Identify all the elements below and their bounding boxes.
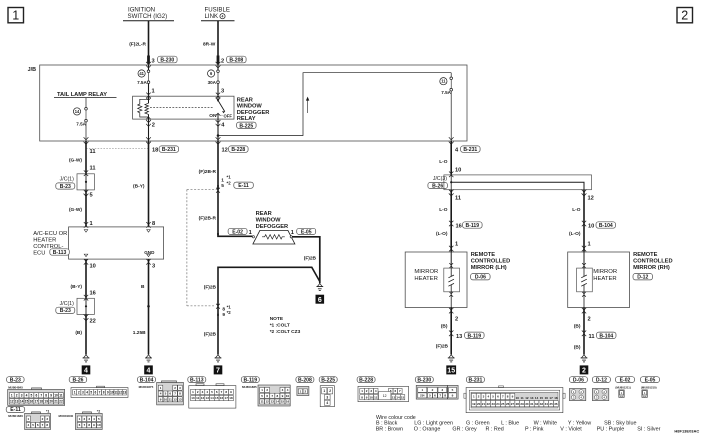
wire label (F)2L-R [129,42,146,48]
fuse 41 7.5A [137,65,155,96]
svg-text:(MU801210): (MU801210) [641,385,657,389]
svg-text:9: 9 [222,312,225,318]
svg-text:H8F13E03AC: H8F13E03AC [674,428,699,433]
connector B-231 pin 18 [146,137,179,153]
svg-text:12: 12 [265,400,269,404]
svg-text:10: 10 [286,394,290,398]
svg-text:REMOTE: REMOTE [633,252,658,258]
svg-text:30A: 30A [208,80,217,85]
svg-text:(B-Y): (B-Y) [71,284,83,290]
wire to defogger pin 1 E-02 [218,228,254,238]
svg-text:9: 9 [107,391,109,395]
svg-text:L-O: L-O [572,207,581,213]
connector view B-104 [138,377,184,405]
svg-text:(B): (B) [574,324,581,330]
svg-text:B-225: B-225 [239,123,253,129]
svg-text:18: 18 [152,148,158,154]
svg-text:11: 11 [455,196,461,202]
connector B-231 pin 4 [449,137,480,153]
svg-text:1: 1 [152,89,155,95]
svg-text:18: 18 [554,396,558,400]
connector view D-06 [569,377,587,401]
svg-text:(F)2B: (F)2B [436,344,449,350]
svg-text:(B): (B) [441,324,448,330]
svg-text:B-23: B-23 [60,184,71,190]
wire J/B internal loop to fuse 11 [217,73,452,137]
svg-text:13: 13 [271,400,275,404]
svg-text:3: 3 [152,58,155,64]
svg-text:11: 11 [196,396,200,400]
svg-text:P : Pink: P : Pink [525,426,544,432]
connector B-230 pin 3 [146,56,177,69]
connector B-208 pin 2 [216,56,247,69]
svg-text:13: 13 [530,396,534,400]
connector view B-23 [7,377,65,406]
svg-text:14: 14 [75,109,80,114]
svg-text:11: 11 [90,166,96,172]
svg-text:B-104: B-104 [599,333,613,339]
svg-text:3: 3 [21,394,23,398]
svg-text:2: 2 [455,317,458,323]
svg-text:11: 11 [441,79,446,84]
svg-text:21: 21 [482,402,486,406]
svg-text:MIRROR: MIRROR [414,269,438,275]
junction connector J/C(1) B-23 upper [56,170,95,196]
svg-text:31: 31 [530,402,534,406]
svg-text:11: 11 [59,394,63,398]
wire B mirror LH to B-119 pin13 [436,308,484,355]
connector view B-230 [415,377,458,399]
svg-text:8: 8 [152,221,155,227]
svg-text:B-104: B-104 [599,223,613,229]
svg-text:10: 10 [370,395,374,399]
svg-text:MU801885: MU801885 [242,385,257,389]
svg-text:27: 27 [511,402,515,406]
wire colour code legend [376,415,661,432]
svg-text:B-231: B-231 [468,377,482,383]
relay pin 4 [216,119,226,141]
svg-text:B-26: B-26 [432,183,443,189]
svg-text:6: 6 [318,297,322,304]
ground 4 marker (B-104) [144,365,153,374]
svg-text:8: 8 [45,394,47,398]
svg-text:D-12: D-12 [637,275,648,281]
svg-text:15: 15 [401,395,405,399]
svg-text:B-119: B-119 [468,333,482,339]
svg-text:17: 17 [549,396,553,400]
svg-text:2: 2 [16,394,18,398]
svg-text:14: 14 [20,400,24,404]
callout REMOTE CONTROLLED MIRROR (LH) D-06 [471,252,511,281]
svg-text:13: 13 [206,396,210,400]
sheet marker 1 [8,8,24,23]
svg-text:35: 35 [549,402,553,406]
ECU A/C-ECU OR HEATER CONTROL-ECU B-113 [33,227,163,259]
connector view D-12 [592,377,610,401]
svg-text:4: 4 [222,14,224,18]
svg-text:28: 28 [516,402,520,406]
svg-text:WINDOW: WINDOW [237,104,263,110]
svg-text:8: 8 [103,391,105,395]
svg-text:HEATER: HEATER [33,238,56,244]
svg-text:(F)2L-R: (F)2L-R [129,42,146,48]
ground 4 marker (B-26) [82,365,91,374]
connector view B-26 [69,377,128,398]
connector view B-225 [319,377,337,407]
svg-text:B-225: B-225 [321,377,335,383]
connector view B-208 [296,377,314,396]
svg-text:MIRROR (RH): MIRROR (RH) [633,265,670,271]
defogger pin 1 E-05 [290,228,316,238]
wire G-W pin11 to J/C(1) [69,141,96,174]
relay pin 2 [146,119,155,141]
svg-text:1: 1 [221,177,224,183]
svg-text:1: 1 [11,394,13,398]
svg-text:REAR: REAR [237,97,253,103]
svg-text:15: 15 [215,396,219,400]
svg-text:CONTROLLED: CONTROLLED [633,259,673,265]
svg-text:(F)2B: (F)2B [204,285,217,291]
svg-text:2: 2 [681,9,688,23]
svg-text:14: 14 [535,396,539,400]
svg-text:L-O: L-O [439,159,448,165]
svg-text:13: 13 [15,400,19,404]
svg-text:MIRROR (LH): MIRROR (LH) [471,265,507,271]
svg-text:3: 3 [326,395,328,399]
connector view E-05 [641,377,660,398]
svg-text:36: 36 [554,402,558,406]
svg-text:13: 13 [392,395,396,399]
svg-text:(MU801211): (MU801211) [615,385,630,389]
svg-text:14: 14 [210,396,214,400]
svg-text:13: 13 [456,334,462,340]
ground 7 marker [214,365,223,374]
svg-text:1: 1 [588,242,591,248]
svg-text:17: 17 [35,400,39,404]
svg-text:11: 11 [374,395,378,399]
svg-text:B-104: B-104 [140,377,154,383]
svg-text:11: 11 [90,149,96,155]
svg-text:22: 22 [487,402,491,406]
svg-text:7.5A: 7.5A [76,121,86,126]
junction connector J/C(1) B-23 lower [56,295,95,321]
svg-text:B-231: B-231 [463,147,477,153]
svg-text:(L-O): (L-O) [569,231,581,237]
svg-text:L-O: L-O [439,207,448,213]
svg-text:234: 234 [420,393,425,397]
svg-text:12: 12 [383,394,387,398]
inline connector pins 8/9 (variant) [216,304,231,318]
svg-text:LINK: LINK [205,13,219,20]
relay coil with parallel resistor [138,93,151,120]
connector view B-119 [241,377,290,406]
wire B-Y pin18 to ECU pin8 [133,141,155,228]
svg-text:*1: *1 [227,304,232,309]
svg-text:1: 1 [291,230,294,236]
svg-text:16: 16 [456,224,462,230]
svg-text:B-119: B-119 [244,377,258,383]
svg-text:12: 12 [222,148,228,154]
drawing number [674,428,699,433]
svg-text:16: 16 [220,396,224,400]
svg-text:15: 15 [447,368,455,375]
svg-text:22: 22 [59,400,63,404]
svg-text:(F)2B-R: (F)2B-R [199,216,217,222]
svg-text:7: 7 [216,368,220,375]
variant dashed box [187,190,218,306]
svg-text:18: 18 [229,396,233,400]
svg-text:15: 15 [540,396,544,400]
svg-text:1: 1 [455,242,458,248]
svg-text:MU801840: MU801840 [59,414,74,418]
svg-text:4: 4 [86,391,88,395]
svg-text:*1: *1 [46,410,49,414]
svg-text:B-228: B-228 [359,377,373,383]
svg-text:6: 6 [35,394,37,398]
svg-text:(G-W): (G-W) [69,157,82,163]
svg-text:L : Blue: L : Blue [501,421,519,427]
note text [270,316,301,335]
svg-text:1.25B: 1.25B [133,330,146,336]
relay contact switch ON/OFF [150,93,232,120]
connector view B-228 [357,377,408,402]
svg-text:1: 1 [249,230,252,236]
svg-text:34: 34 [545,402,549,406]
wire B ECU pin3 to ground 4 (B-104) [133,259,155,355]
svg-text:7: 7 [99,391,101,395]
svg-text:B-113: B-113 [190,377,204,383]
svg-text:21: 21 [54,400,58,404]
svg-text:14: 14 [396,395,400,399]
svg-text:MIRROR: MIRROR [593,269,617,275]
heater element REAR WINDOW DEFOGGER [253,211,295,244]
wire label 8R-W [203,42,216,48]
svg-text:13: 13 [178,397,182,401]
wire B mirror RH to B-104 pin11 [574,308,616,355]
wire (F)2B to ground 7 [204,314,218,355]
svg-text:29: 29 [520,402,524,406]
svg-text:D-12: D-12 [596,377,607,383]
svg-text:10: 10 [455,168,461,174]
svg-text:16: 16 [90,291,96,297]
svg-text:10: 10 [97,423,101,427]
svg-text:7: 7 [40,394,42,398]
svg-text:B-23: B-23 [10,377,21,383]
svg-text:(F)2B-R: (F)2B-R [199,169,217,175]
svg-text:B-26: B-26 [72,377,83,383]
svg-text:PU : Purple: PU : Purple [597,426,625,432]
svg-text:*2 :COLT CZ3: *2 :COLT CZ3 [270,329,301,335]
junction connector J/C(3) B-26 [428,172,592,197]
svg-text:HEATER: HEATER [414,276,437,282]
mirror heater RH box [568,252,630,308]
svg-text:REAR: REAR [256,211,272,217]
ground earth symbol 15 [448,355,455,362]
wire L-O pin4 to J/C(3) [439,141,461,175]
svg-text:J/B: J/B [28,67,36,73]
ground earth symbol 6 [316,284,323,291]
svg-text:8R-W: 8R-W [203,42,216,48]
svg-text:16: 16 [545,396,549,400]
svg-text:DEFOGGER: DEFOGGER [256,224,289,230]
svg-text:11: 11 [521,396,525,400]
svg-text:3: 3 [221,89,224,95]
svg-text:CONTROLLED: CONTROLLED [471,259,511,265]
svg-text:2: 2 [329,389,331,393]
svg-text:3: 3 [82,391,84,395]
svg-text:10: 10 [90,264,96,270]
svg-text:OFF: OFF [224,114,233,119]
power source FUSIBLE LINK 4 [201,7,235,21]
svg-text:HEATER: HEATER [593,276,616,282]
svg-text:33: 33 [540,402,544,406]
direction arrow up [306,97,309,113]
svg-text:2: 2 [582,368,586,375]
svg-text:4: 4 [326,401,328,405]
svg-text:2: 2 [78,391,80,395]
svg-text:*2: *2 [227,180,232,185]
svg-text:10: 10 [110,391,114,395]
svg-text:12: 12 [201,396,205,400]
svg-text:10: 10 [164,397,168,401]
wire (F)2B-R E-11 to defogger [199,185,220,235]
svg-text:1: 1 [74,391,76,395]
svg-text:13: 13 [123,391,127,395]
svg-text:E-11: E-11 [10,407,21,413]
svg-text:19: 19 [472,402,476,406]
svg-text:SI : Silver: SI : Silver [637,426,660,432]
connector view B-113 [188,377,236,408]
svg-text:E-05: E-05 [645,377,656,383]
ground earth symbol 2 [581,355,588,362]
svg-text:*2: *2 [227,310,232,315]
svg-text:BR : Brown: BR : Brown [376,426,403,432]
svg-text:(B): (B) [574,345,581,351]
dashed connector tie B-231 pins 11-18 [86,148,149,150]
svg-text:(L-O): (L-O) [436,231,448,237]
ground 15 marker [446,365,456,374]
svg-text:B: B [141,284,145,290]
svg-text:4: 4 [26,394,28,398]
svg-text:V : Violet: V : Violet [560,426,582,432]
wire ignition feed (F)2L-R [148,21,150,65]
relay callout text [237,97,270,129]
svg-text:J/C(1): J/C(1) [60,176,74,182]
relay U1 REAR WINDOW DEFOGGER RELAY B-225 [133,96,234,119]
svg-text:14: 14 [276,400,280,404]
svg-text:B-113: B-113 [53,250,67,256]
svg-text:(B-Y): (B-Y) [133,184,145,190]
svg-text:O : Orange: O : Orange [414,426,441,432]
svg-text:A/C-ECU OR: A/C-ECU OR [33,231,67,237]
svg-text:30: 30 [525,402,529,406]
svg-text:(B): (B) [75,330,82,336]
power source IGNITION SWITCH (IG2) [123,7,174,21]
svg-text:10: 10 [588,224,594,230]
svg-text:2: 2 [221,58,224,64]
connector view E-11 variants [6,407,102,430]
svg-text:1: 1 [323,389,325,393]
fuse 14 7.5A [73,98,87,141]
connector view B-231 [464,377,565,413]
svg-text:7.5A: 7.5A [137,80,147,85]
inline connector E-11 pins 1/5 [218,175,253,190]
svg-text:B-23: B-23 [60,308,71,314]
junction block J/B [28,65,467,141]
wire fusible link feed 8R-W [217,21,219,65]
svg-text:17: 17 [225,396,229,400]
svg-text:4: 4 [84,368,88,375]
svg-text:8: 8 [222,306,225,312]
svg-text:9: 9 [50,394,52,398]
wire G-W J/C(1) to ECU pin1 [69,190,93,228]
svg-text:(G-W): (G-W) [69,207,82,213]
wire L-O to B-104 pin10 [569,190,615,252]
svg-text:24: 24 [496,402,500,406]
fuse 6 30A [208,65,225,96]
svg-text:E-05: E-05 [301,229,312,235]
svg-text:25: 25 [501,402,505,406]
svg-text:5: 5 [90,193,93,199]
wire defogger to ground 6 [292,237,320,283]
svg-text:*1 :COLT: *1 :COLT [270,323,290,329]
fuse 11 7.5A [440,73,453,141]
svg-text:*2: *2 [97,410,100,414]
svg-text:15: 15 [281,400,285,404]
sheet marker 2 [677,8,693,23]
svg-text:D-06: D-06 [573,377,584,383]
wire L-O to B-119 pin16 [436,190,482,252]
svg-text:23: 23 [491,402,495,406]
svg-text:*1: *1 [227,175,232,180]
svg-text:MU804845: MU804845 [8,386,23,390]
svg-text:R : Red: R : Red [486,426,504,432]
svg-text:12: 12 [10,400,14,404]
resistor mirror heater RH [577,252,593,308]
svg-text:ECU: ECU [33,251,45,257]
svg-text:D-06: D-06 [475,275,486,281]
svg-text:10: 10 [191,396,195,400]
callout REMOTE CONTROLLED MIRROR (RH) D-12 [633,252,673,281]
svg-text:12: 12 [588,196,594,202]
svg-text:10: 10 [54,394,58,398]
svg-text:(F)2B: (F)2B [304,256,317,262]
connector B-228 pin 12 [216,137,249,153]
svg-text:REMOTE: REMOTE [471,252,496,258]
svg-text:10: 10 [516,396,520,400]
svg-text:22: 22 [90,319,96,325]
svg-text:12: 12 [525,396,529,400]
svg-text:B-230: B-230 [417,377,431,383]
svg-text:B-231: B-231 [162,147,176,153]
svg-text:7.5A: 7.5A [441,90,451,95]
svg-text:5: 5 [90,391,92,395]
connector view E-02 [615,377,634,398]
ground earth symbol mid-left [145,355,152,362]
svg-text:B-208: B-208 [298,377,312,383]
svg-text:E-02: E-02 [232,229,243,235]
svg-text:E-11: E-11 [238,183,249,189]
svg-text:2: 2 [152,123,155,129]
svg-text:5: 5 [221,183,224,189]
svg-text:18: 18 [40,400,44,404]
svg-text:20: 20 [477,402,481,406]
svg-text:4: 4 [147,368,151,375]
svg-text:B-208: B-208 [229,58,243,64]
wire (F)2B-R pin12 to E-11 [199,141,218,176]
svg-text:MU801875: MU801875 [139,385,154,389]
svg-text:20: 20 [49,400,53,404]
